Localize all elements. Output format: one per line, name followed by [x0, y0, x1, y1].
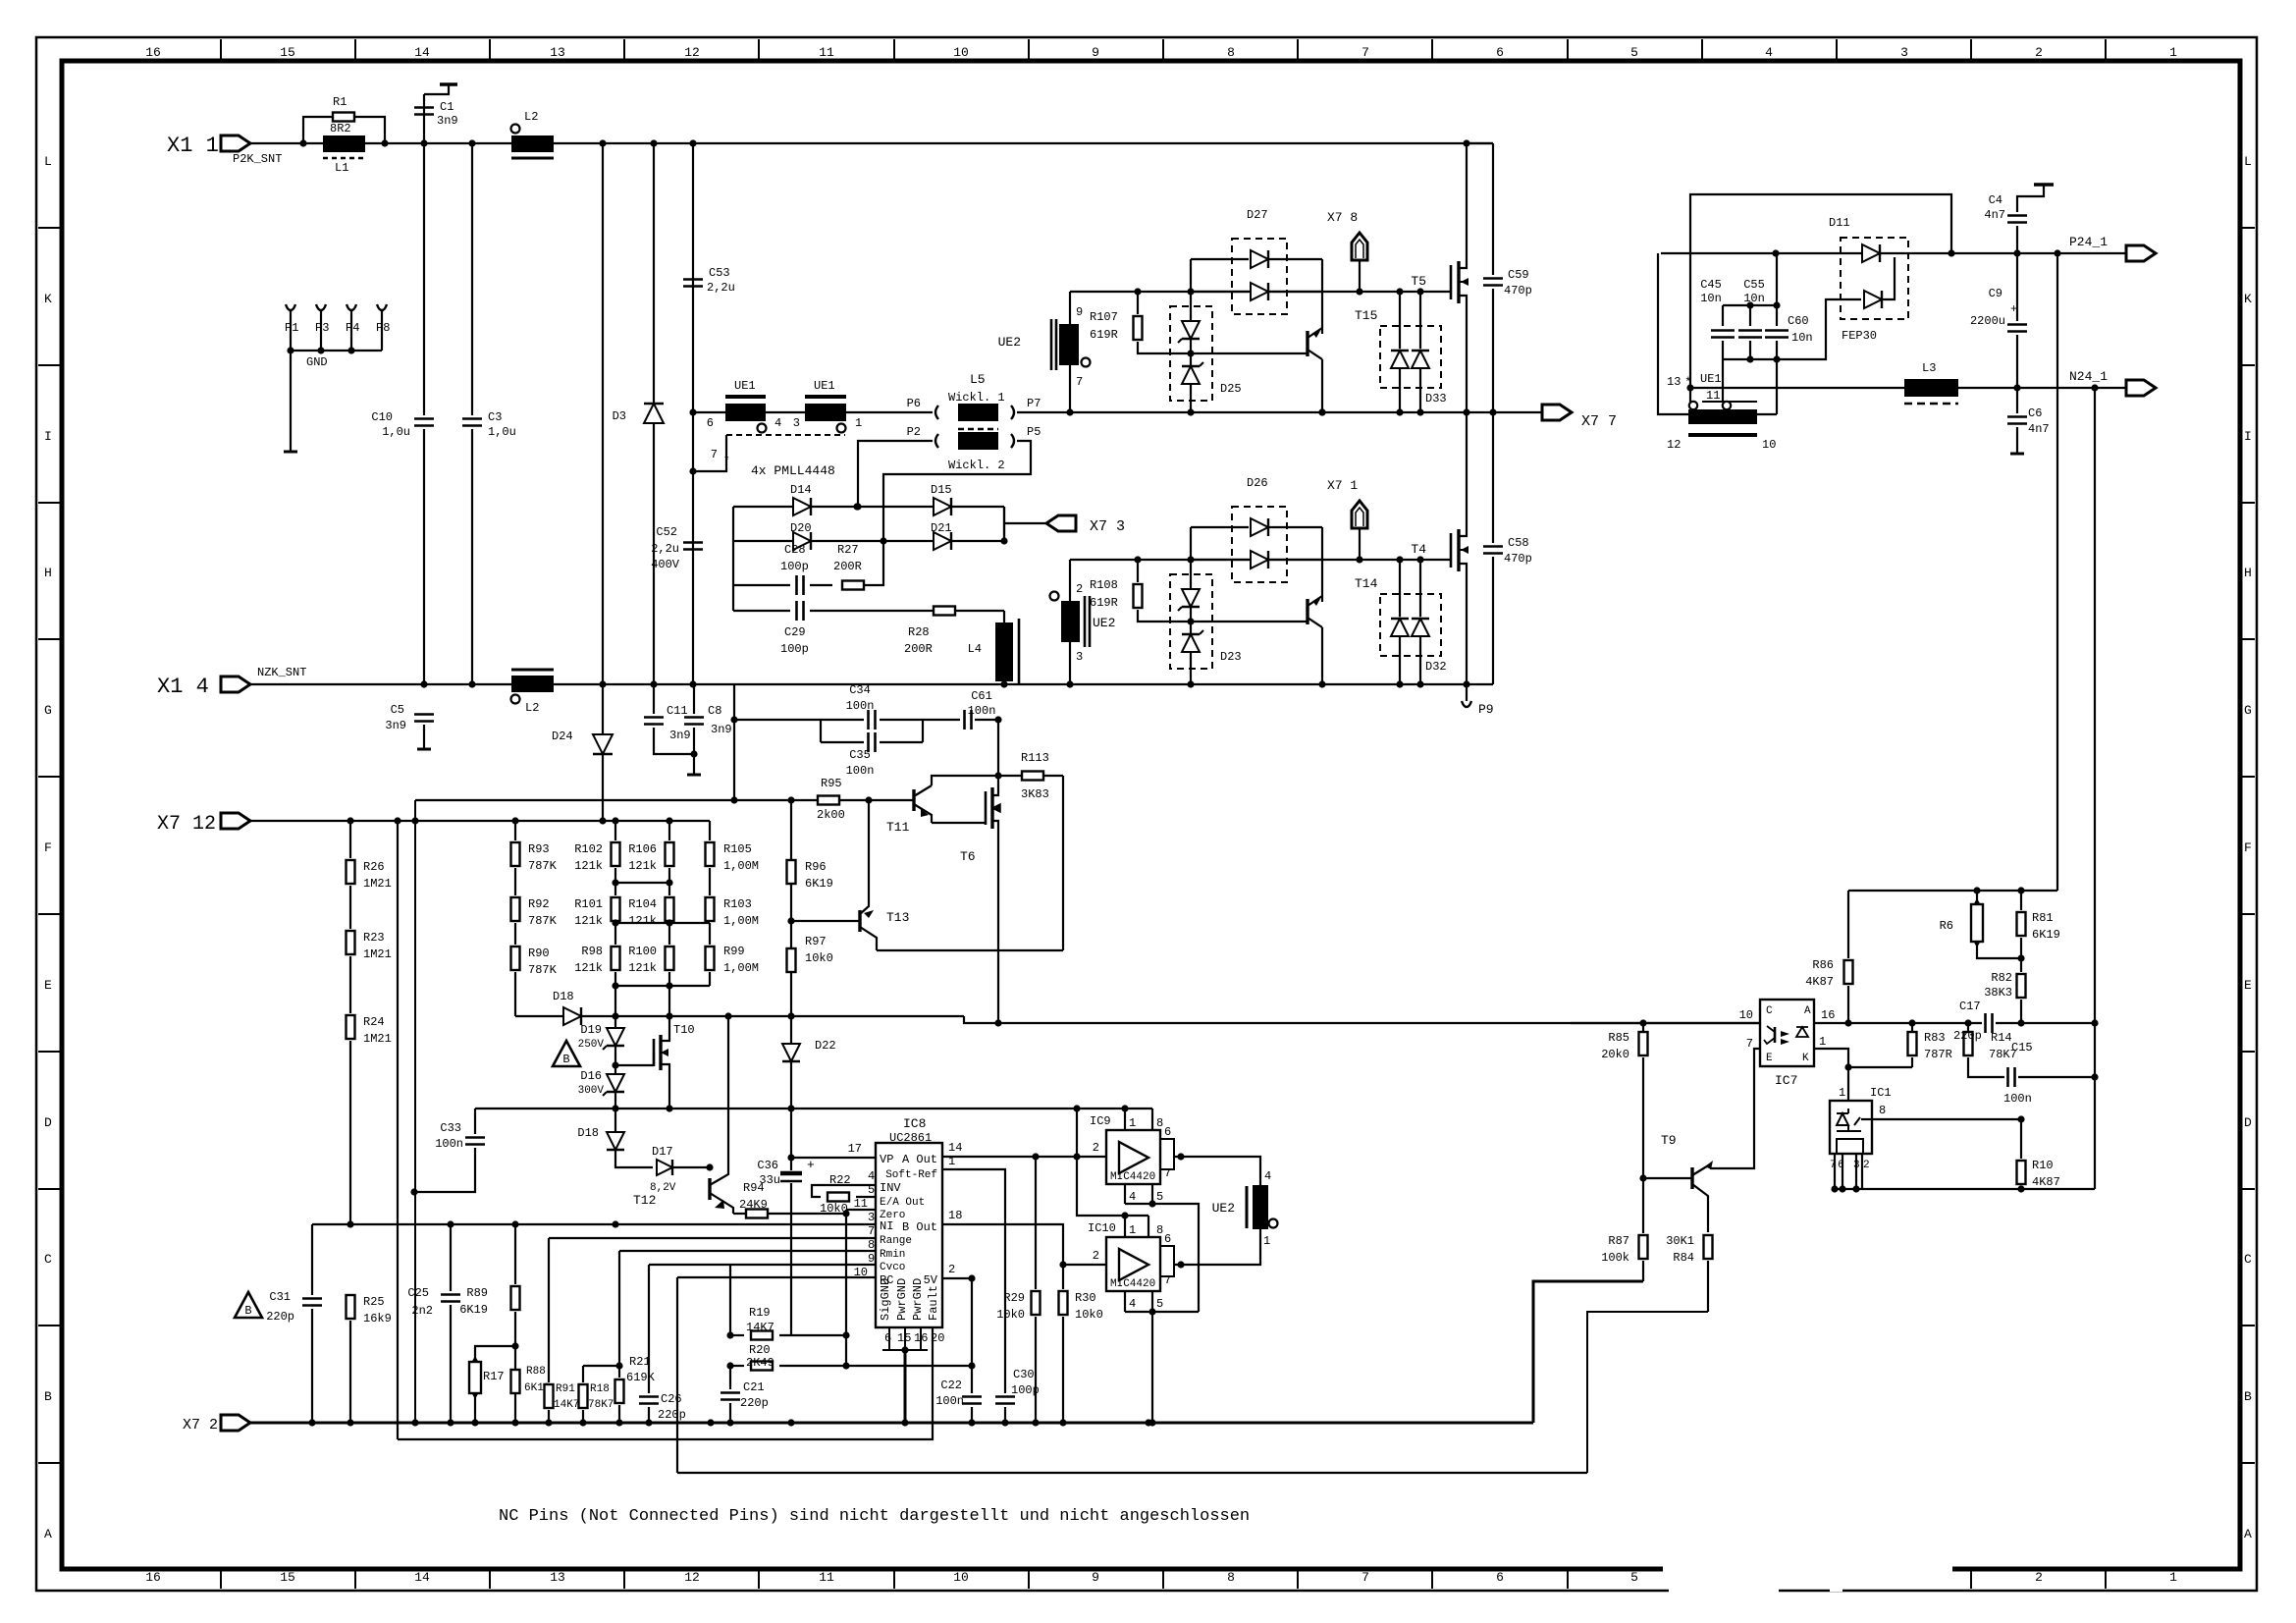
- pin P7: [1011, 406, 1014, 419]
- svg-text:T13: T13: [886, 910, 909, 925]
- wire Soft-Ref: [942, 1169, 1005, 1393]
- svg-text:C8: C8: [708, 704, 721, 718]
- svg-text:8R2: 8R2: [330, 122, 351, 135]
- diode D17: [657, 1160, 672, 1175]
- svg-text:3n9: 3n9: [711, 723, 732, 736]
- svg-text:5: 5: [1156, 1297, 1163, 1311]
- svg-text:470p: 470p: [1504, 552, 1532, 566]
- erased border patch: [1663, 1562, 1952, 1574]
- svg-text:Fault: Fault: [927, 1285, 940, 1321]
- svg-text:E/A Out: E/A Out: [880, 1197, 925, 1209]
- svg-text:*: *: [723, 456, 730, 467]
- svg-text:GND: GND: [306, 355, 328, 369]
- capacitor C33: [474, 1109, 476, 1134]
- IC9 output wire: [1174, 1157, 1260, 1185]
- transformer UE1 secondary: [1688, 409, 1757, 424]
- svg-text:100p: 100p: [780, 560, 809, 573]
- inductor L5 Wickl.2: [958, 432, 998, 450]
- wire X1-4 NZK line: [250, 683, 1493, 685]
- svg-text:100n: 100n: [846, 699, 875, 713]
- svg-text:C35: C35: [849, 748, 871, 762]
- resistor R23: [349, 886, 351, 929]
- transformer UE2 lower: [1061, 601, 1080, 642]
- resistor R83: [1911, 1023, 1913, 1034]
- svg-text:D3: D3: [613, 409, 626, 423]
- diode D26b: [1191, 559, 1249, 561]
- svg-text:7: 7: [1076, 375, 1083, 389]
- svg-text:D27: D27: [1247, 208, 1268, 222]
- warning triangle B1: [553, 1041, 580, 1066]
- svg-text:C: C: [44, 1252, 52, 1267]
- diode D27a: [1191, 258, 1249, 260]
- wire P24 line: [1661, 252, 2126, 254]
- svg-text:X7 2: X7 2: [183, 1417, 218, 1434]
- svg-text:B Out: B Out: [902, 1220, 937, 1234]
- IC10 bottom pins: [1124, 1291, 1126, 1312]
- svg-text:R26: R26: [363, 860, 385, 874]
- connector X7 8: [1352, 233, 1367, 260]
- svg-text:1,00M: 1,00M: [723, 859, 759, 873]
- wire tie to D11: [1777, 299, 1861, 359]
- capacitor C4: [2016, 226, 2018, 253]
- svg-text:FEP30: FEP30: [1842, 329, 1877, 343]
- svg-text:R22: R22: [829, 1173, 851, 1187]
- svg-text:B: B: [244, 1304, 251, 1318]
- svg-text:C: C: [2244, 1252, 2252, 1267]
- svg-text:D22: D22: [815, 1039, 836, 1053]
- transistor T14: [1321, 527, 1323, 602]
- wire rail1129: [475, 1108, 1152, 1109]
- diode D15: [857, 506, 1004, 508]
- svg-text:K: K: [2244, 292, 2252, 306]
- wire P24 corner to R86 rail: [1848, 890, 2057, 892]
- svg-text:2: 2: [1863, 1160, 1870, 1171]
- pin P8: [377, 304, 387, 310]
- wire UE2b pin2 up: [1069, 560, 1071, 601]
- svg-text:14K7: 14K7: [746, 1321, 774, 1334]
- svg-text:D14: D14: [790, 483, 812, 497]
- svg-text:8: 8: [1879, 1104, 1886, 1117]
- svg-text:6: 6: [1164, 1232, 1171, 1246]
- svg-text:4: 4: [1129, 1297, 1136, 1311]
- wire IC7 E: [1710, 1049, 1760, 1168]
- svg-text:R97: R97: [805, 935, 827, 948]
- resistor R105: [709, 821, 711, 840]
- capacitor C8: [693, 684, 695, 714]
- svg-text:2,2u: 2,2u: [707, 281, 735, 295]
- svg-text:5: 5: [1630, 1570, 1638, 1585]
- svg-text:33u: 33u: [759, 1173, 780, 1187]
- svg-text:4: 4: [774, 416, 781, 430]
- svg-text:8: 8: [1156, 1116, 1163, 1130]
- svg-text:7: 7: [1362, 45, 1369, 60]
- capacitor C29 row: [733, 610, 790, 612]
- svg-text:C45: C45: [1700, 278, 1722, 292]
- svg-text:D: D: [2244, 1115, 2252, 1130]
- wire UE2a pin9 up: [1069, 292, 1071, 324]
- capacitor C5: [414, 715, 434, 722]
- resistor R92: [514, 868, 516, 895]
- svg-text:PwrGND: PwrGND: [895, 1278, 909, 1321]
- svg-text:1: 1: [1129, 1116, 1136, 1130]
- nodes gate row lower: [1134, 556, 1141, 563]
- wire R87 stair to X7-2: [1533, 1281, 1643, 1423]
- capacitor C15: [2008, 1067, 2015, 1087]
- svg-text:6: 6: [1164, 1125, 1171, 1139]
- svg-text:X7 3: X7 3: [1090, 518, 1125, 535]
- svg-text:1,00M: 1,00M: [723, 961, 759, 975]
- svg-text:R113: R113: [1021, 751, 1049, 765]
- svg-text:1,0u: 1,0u: [488, 425, 516, 439]
- transformer UE1 winding B: [805, 395, 846, 399]
- IC MIC4420 IC9: [1106, 1130, 1160, 1184]
- svg-text:R98: R98: [581, 945, 603, 958]
- svg-text:Wickl. 1: Wickl. 1: [948, 391, 1005, 405]
- resistor R98: [612, 947, 620, 970]
- capacitor C10: [414, 419, 434, 426]
- wire UE1 pin7 branch: [693, 435, 726, 471]
- wire UE1-1 to P6: [846, 411, 933, 413]
- wire gate row upper: [1070, 291, 1451, 293]
- svg-text:D25: D25: [1220, 382, 1242, 396]
- svg-text:10n: 10n: [1700, 292, 1722, 305]
- svg-text:100n: 100n: [935, 1394, 964, 1408]
- wire P5 return: [883, 441, 1031, 541]
- svg-text:MIC4420: MIC4420: [1110, 1171, 1155, 1183]
- svg-text:12: 12: [1667, 438, 1681, 452]
- capacitor C45: [1722, 305, 1724, 326]
- svg-text:3: 3: [1900, 45, 1908, 60]
- capacitor C60: [1765, 331, 1789, 338]
- svg-text:R21: R21: [629, 1355, 651, 1369]
- wire RC drop x690: [676, 1277, 678, 1473]
- resistor R90: [514, 923, 516, 945]
- svg-text:787R: 787R: [1924, 1048, 1952, 1061]
- svg-text:R101: R101: [574, 897, 603, 911]
- node junctions on mid wire: [1066, 408, 1073, 415]
- svg-text:X7 1: X7 1: [1327, 478, 1358, 493]
- svg-text:10k0: 10k0: [805, 951, 833, 965]
- svg-text:7: 7: [868, 1224, 875, 1238]
- svg-text:D16: D16: [580, 1069, 602, 1083]
- svg-text:R89: R89: [466, 1286, 488, 1300]
- svg-text:IC1: IC1: [1870, 1086, 1892, 1100]
- svg-text:9: 9: [1076, 305, 1083, 319]
- wire pin10 link: [1757, 413, 1777, 415]
- svg-text:121k: 121k: [628, 961, 657, 975]
- svg-text:C5: C5: [391, 703, 404, 717]
- capacitor C22: [971, 1278, 973, 1393]
- wire IC7 K: [1814, 1049, 1912, 1067]
- svg-text:P7: P7: [1027, 397, 1041, 410]
- svg-text:B: B: [44, 1389, 52, 1404]
- svg-text:MIC4420: MIC4420: [1110, 1278, 1155, 1290]
- svg-text:L1: L1: [335, 161, 348, 175]
- svg-text:3: 3: [1076, 650, 1083, 664]
- svg-text:9: 9: [1092, 1570, 1099, 1585]
- svg-text:400V: 400V: [651, 558, 680, 571]
- svg-text:T10: T10: [673, 1023, 695, 1037]
- svg-text:7: 7: [1746, 1037, 1753, 1051]
- resistor R81: [2020, 891, 2022, 910]
- capacitor C31: [311, 1224, 313, 1295]
- svg-text:R27: R27: [837, 543, 859, 557]
- svg-text:C59: C59: [1508, 268, 1529, 282]
- svg-text:100p: 100p: [780, 642, 809, 656]
- svg-text:10: 10: [1739, 1008, 1753, 1022]
- zener D19: [614, 986, 616, 1028]
- svg-text:R100: R100: [628, 945, 657, 958]
- svg-text:C33: C33: [440, 1121, 461, 1135]
- dashed core line UE1: [726, 434, 845, 436]
- svg-text:14K7: 14K7: [554, 1399, 579, 1411]
- svg-text:UC2861: UC2861: [889, 1131, 932, 1145]
- capacitor C35: [869, 732, 876, 752]
- pin P5: [1011, 434, 1014, 448]
- svg-text:C36: C36: [757, 1159, 778, 1172]
- capacitor C53: [683, 280, 703, 287]
- resistor R17 variable: [475, 1346, 515, 1362]
- svg-text:R83: R83: [1924, 1031, 1946, 1045]
- svg-text:IC9: IC9: [1090, 1114, 1111, 1128]
- svg-text:R23: R23: [363, 931, 385, 945]
- diode D22: [790, 1016, 792, 1043]
- svg-text:R29: R29: [1003, 1291, 1025, 1305]
- wire diode-block left bus: [732, 507, 734, 611]
- IC9 pin stubs: [1124, 1109, 1126, 1130]
- svg-text:NI: NI: [880, 1219, 893, 1233]
- svg-text:UE1: UE1: [814, 379, 835, 393]
- resistor R29: [1035, 1157, 1037, 1289]
- wire x423 column: [414, 800, 416, 1423]
- svg-text:C22: C22: [940, 1379, 962, 1392]
- wire y1500 lower row: [677, 1472, 1587, 1474]
- svg-text:3n9: 3n9: [385, 719, 406, 732]
- svg-text:P5: P5: [1027, 425, 1041, 439]
- svg-text:R30: R30: [1075, 1291, 1096, 1305]
- svg-text:R102: R102: [574, 842, 603, 856]
- svg-text:C30: C30: [1013, 1368, 1035, 1381]
- svg-text:C21: C21: [743, 1380, 765, 1394]
- connector P24_1: [2126, 245, 2156, 261]
- svg-text:10k0: 10k0: [1075, 1308, 1103, 1322]
- svg-text:A: A: [2244, 1527, 2252, 1542]
- resistor R113: [932, 776, 998, 785]
- svg-text:P9: P9: [1478, 702, 1494, 717]
- connector X7 7: [1542, 405, 1572, 420]
- svg-text:L: L: [2244, 154, 2252, 169]
- svg-text:4n7: 4n7: [1984, 208, 2005, 222]
- zener D25a: [1190, 292, 1192, 320]
- resistor R27: [842, 581, 864, 590]
- svg-text:L3: L3: [1922, 361, 1936, 375]
- wire IC10 gnd drop: [1151, 1312, 1153, 1423]
- resistor R82: [2017, 974, 2026, 998]
- svg-text:300V: 300V: [578, 1085, 605, 1097]
- connector X7 1: [1352, 501, 1367, 528]
- zener D32b: [1419, 560, 1421, 617]
- svg-text:220p: 220p: [266, 1310, 294, 1324]
- IC8 bottom pins: [889, 1327, 921, 1350]
- svg-text:250V: 250V: [578, 1039, 605, 1051]
- wire D15 to D21 corner: [1003, 507, 1005, 541]
- svg-text:L5: L5: [970, 372, 986, 387]
- svg-text:L: L: [44, 154, 52, 169]
- resistor R97: [790, 921, 792, 948]
- svg-text:SigGND: SigGND: [879, 1278, 892, 1321]
- svg-text:E: E: [1766, 1053, 1773, 1064]
- zener D16: [612, 1061, 618, 1068]
- wire matrix tie1: [615, 882, 669, 884]
- inductor L5 Wickl.1: [958, 404, 998, 421]
- svg-text:UE1: UE1: [1700, 372, 1722, 386]
- svg-text:X1 1: X1 1: [167, 134, 219, 158]
- svg-text:1M21: 1M21: [363, 877, 392, 891]
- wire Cvco row: [649, 1264, 876, 1266]
- svg-text:N24_1: N24_1: [2069, 369, 2108, 384]
- svg-text:P6: P6: [907, 397, 921, 410]
- connector X1 4: [221, 676, 250, 692]
- svg-text:C34: C34: [849, 683, 871, 697]
- svg-text:T12: T12: [633, 1193, 656, 1208]
- svg-text:15: 15: [897, 1331, 911, 1345]
- wire matrix tie3: [615, 985, 710, 987]
- svg-text:R99: R99: [723, 945, 745, 958]
- zener D23a: [1190, 560, 1192, 588]
- svg-text:15: 15: [280, 45, 295, 60]
- svg-text:16: 16: [145, 45, 161, 60]
- svg-text:D24: D24: [552, 730, 573, 743]
- svg-text:R28: R28: [908, 625, 930, 639]
- svg-text:P2: P2: [907, 425, 921, 439]
- svg-text:1: 1: [2169, 45, 2177, 60]
- svg-text:D33: D33: [1425, 392, 1447, 406]
- svg-text:2n2: 2n2: [411, 1304, 433, 1318]
- zener box D25: [1170, 306, 1212, 401]
- svg-text:1,0u: 1,0u: [382, 425, 410, 439]
- svg-text:R24: R24: [363, 1015, 385, 1029]
- svg-text:T14: T14: [1355, 576, 1378, 591]
- svg-text:1: 1: [948, 1155, 955, 1168]
- diode D11b: [1864, 291, 1882, 308]
- svg-text:1,00M: 1,00M: [723, 914, 759, 928]
- svg-text:3n9: 3n9: [669, 729, 691, 742]
- resistor R101: [612, 897, 620, 921]
- svg-text:C60: C60: [1788, 314, 1809, 328]
- svg-text:R19: R19: [749, 1306, 771, 1320]
- wire X1-1 main line: [250, 142, 1493, 144]
- svg-text:L4: L4: [968, 642, 982, 656]
- svg-text:100n: 100n: [968, 704, 996, 718]
- svg-text:C1: C1: [440, 100, 454, 114]
- wire VP row: [791, 1157, 876, 1159]
- transistor T13: [791, 920, 860, 922]
- svg-text:T9: T9: [1661, 1133, 1677, 1148]
- svg-text:P1: P1: [285, 321, 298, 335]
- svg-text:T15: T15: [1355, 308, 1377, 323]
- svg-text:L2: L2: [524, 110, 538, 124]
- svg-text:D26: D26: [1247, 476, 1268, 490]
- svg-text:2: 2: [2035, 1570, 2043, 1585]
- resistor R107: [1134, 316, 1143, 340]
- resistor R25: [347, 1295, 355, 1319]
- transformer UE2 upper: [1059, 324, 1079, 365]
- svg-text:16k9: 16k9: [363, 1312, 392, 1325]
- svg-text:4: 4: [1264, 1169, 1271, 1183]
- svg-text:R92: R92: [528, 897, 550, 911]
- capacitor C34: [734, 719, 821, 721]
- svg-text:P3: P3: [315, 321, 329, 335]
- wire top corner: [1467, 142, 1493, 144]
- wire RC row: [677, 1276, 876, 1278]
- svg-text:5: 5: [868, 1183, 875, 1197]
- svg-text:6K19: 6K19: [805, 877, 833, 891]
- svg-text:R87: R87: [1608, 1234, 1629, 1248]
- node D21 left: [880, 537, 886, 544]
- resistor R30: [1062, 1265, 1064, 1289]
- svg-text:C26: C26: [661, 1392, 682, 1406]
- svg-text:14: 14: [948, 1141, 962, 1155]
- svg-text:787K: 787K: [528, 914, 558, 928]
- svg-text:11: 11: [819, 1570, 834, 1585]
- svg-text:D20: D20: [790, 521, 812, 535]
- diode D14: [733, 506, 857, 508]
- svg-text:619R: 619R: [1090, 596, 1118, 610]
- svg-text:16: 16: [1821, 1008, 1835, 1022]
- svg-text:3n9: 3n9: [437, 114, 458, 128]
- svg-text:R103: R103: [723, 897, 752, 911]
- wire matrix tie2: [615, 922, 710, 924]
- svg-text:C: C: [1766, 1005, 1773, 1017]
- svg-text:6: 6: [884, 1331, 891, 1345]
- svg-text:IC8: IC8: [903, 1116, 926, 1131]
- pin P2: [935, 434, 938, 448]
- wire N24 line: [1690, 387, 2126, 389]
- svg-text:C28: C28: [784, 543, 806, 557]
- svg-text:200R: 200R: [833, 560, 862, 573]
- IC MIC4420 IC10: [1106, 1237, 1160, 1291]
- svg-text:D17: D17: [652, 1145, 673, 1159]
- wire UE2b pin3 down: [1069, 642, 1071, 684]
- svg-text:17: 17: [848, 1142, 862, 1156]
- svg-text:+: +: [2010, 302, 2017, 316]
- wire NI row: [312, 1223, 876, 1225]
- svg-text:R108: R108: [1090, 578, 1118, 592]
- svg-text:220p: 220p: [1953, 1029, 1982, 1043]
- ground above C1: [424, 84, 449, 94]
- svg-text:12: 12: [684, 45, 700, 60]
- svg-text:C17: C17: [1959, 1000, 1981, 1013]
- wire y815 row: [415, 799, 914, 801]
- svg-text:78K7: 78K7: [588, 1399, 614, 1411]
- svg-text:X1 4: X1 4: [157, 675, 209, 699]
- svg-text:R17: R17: [483, 1370, 505, 1383]
- transformer UE2 drive: [1246, 1186, 1249, 1228]
- resistor R96: [790, 800, 792, 860]
- svg-text:R85: R85: [1608, 1031, 1629, 1045]
- wire P24 right vertical: [2056, 253, 2058, 891]
- svg-text:5V: 5V: [924, 1273, 938, 1287]
- svg-text:16: 16: [145, 1570, 161, 1585]
- wire R18 top tie: [583, 1365, 619, 1367]
- svg-text:14: 14: [414, 45, 430, 60]
- svg-text:R93: R93: [528, 842, 550, 856]
- resistor R104: [666, 897, 674, 921]
- wire D18 row: [615, 1015, 964, 1017]
- wire gate row lower: [1070, 559, 1451, 561]
- svg-text:10k0: 10k0: [820, 1202, 848, 1216]
- svg-text:3K83: 3K83: [1021, 787, 1049, 801]
